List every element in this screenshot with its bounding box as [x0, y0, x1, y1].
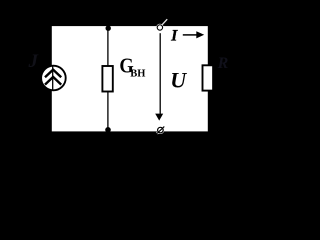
wire (left branch segment through source circle)	[52, 66, 54, 91]
svg-text:ВН: ВН	[130, 69, 145, 80]
svg-text:U: U	[170, 68, 187, 93]
current arrow I (shaft)	[183, 34, 198, 36]
node A (top junction dot)	[106, 26, 111, 31]
svg-text:I: I	[170, 27, 178, 44]
resistor R	[203, 65, 214, 90]
svg-text:R: R	[217, 55, 229, 72]
svg-text:J: J	[28, 51, 39, 72]
circuit paper area	[52, 26, 208, 131]
label G_vn	[119, 54, 145, 79]
node B (bottom junction dot)	[105, 127, 111, 133]
conductance G box	[102, 66, 112, 92]
current arrow I (head)	[196, 31, 204, 38]
current source arrows (chevrons)	[45, 70, 61, 85]
node terminal a (top, circle with tick)	[157, 19, 167, 30]
node terminal b (bottom, circle with tick)	[157, 127, 164, 134]
current source J (circle)	[41, 66, 66, 91]
voltage arrow U (shaft)	[159, 33, 161, 114]
voltage arrow U (head)	[155, 114, 163, 121]
wire (middle branch, above G box)	[107, 26, 109, 66]
wire (middle branch, below G box)	[107, 92, 109, 130]
